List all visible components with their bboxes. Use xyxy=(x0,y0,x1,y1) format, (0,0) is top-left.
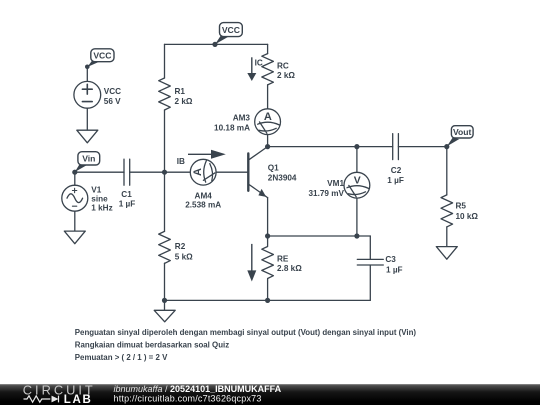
wire R5 to ground xyxy=(446,227,448,247)
current arrows xyxy=(188,57,256,281)
svg-text:sine: sine xyxy=(91,195,108,204)
svg-text:RE: RE xyxy=(277,255,289,264)
wire Vin row left xyxy=(75,171,124,173)
svg-text:http://circuitlab.com/c7t3626q: http://circuitlab.com/c7t3626qcpx73 xyxy=(114,393,262,403)
ammeter AM3 xyxy=(255,109,281,135)
wire AM4 to base xyxy=(216,171,248,173)
footer bar xyxy=(0,384,540,405)
wire C3 branch top xyxy=(369,236,371,259)
svg-text:C2: C2 xyxy=(391,166,402,175)
ground (VCC) xyxy=(77,130,98,143)
svg-text:1 µF: 1 µF xyxy=(386,265,403,274)
ground (bottom bus) xyxy=(154,300,175,321)
wire RC to AM3 xyxy=(267,85,269,109)
svg-text:AM3: AM3 xyxy=(233,114,251,123)
current arrow IB xyxy=(188,153,212,155)
node ground bus left xyxy=(162,298,167,303)
svg-text:Q1: Q1 xyxy=(268,164,279,173)
svg-text:Vin: Vin xyxy=(82,154,95,164)
node VCC flag anchor xyxy=(85,65,90,70)
node Vout xyxy=(444,144,449,149)
net flag Vin xyxy=(75,152,100,172)
svg-text:RC: RC xyxy=(277,61,289,70)
node VM1 bottom xyxy=(354,233,359,238)
node emitter xyxy=(265,233,270,238)
svg-text:Penguatan sinyal diperoleh den: Penguatan sinyal diperoleh dengan membag… xyxy=(75,328,417,337)
svg-text:VCC: VCC xyxy=(104,87,121,96)
svg-text:2 kΩ: 2 kΩ xyxy=(277,71,295,80)
svg-text:2 kΩ: 2 kΩ xyxy=(175,97,193,106)
resistor R5 xyxy=(441,195,453,227)
node Vin xyxy=(72,170,77,175)
capacitor C2 xyxy=(393,134,399,160)
svg-text:1 kHz: 1 kHz xyxy=(91,203,112,212)
svg-text:1 µF: 1 µF xyxy=(387,176,404,185)
svg-text:C1: C1 xyxy=(121,190,132,199)
wire VM1 top xyxy=(356,147,358,173)
wire base row (node to AM4) xyxy=(165,171,191,173)
resistor RC xyxy=(262,54,274,85)
svg-text:LAB: LAB xyxy=(64,394,93,405)
capacitor C1 xyxy=(124,159,130,185)
voltmeter VM1 xyxy=(344,172,370,198)
svg-text:R2: R2 xyxy=(175,242,186,251)
svg-text:VM1: VM1 xyxy=(327,179,344,188)
ground (R5) xyxy=(436,247,457,260)
svg-text:IC: IC xyxy=(255,59,263,68)
wire VCC source to ground xyxy=(86,108,88,130)
wire VM1 bottom xyxy=(356,198,358,236)
svg-text:5 kΩ: 5 kΩ xyxy=(175,253,193,262)
logo resistor-diode symbol xyxy=(24,396,59,403)
net flag Vout xyxy=(447,126,473,147)
wire R1 to base node xyxy=(164,110,166,231)
svg-text:2N3904: 2N3904 xyxy=(268,174,297,183)
svg-text:10.18 mA: 10.18 mA xyxy=(214,124,250,133)
transistor Q1 xyxy=(247,154,249,191)
svg-text:V: V xyxy=(354,176,361,187)
svg-text:A: A xyxy=(192,168,204,176)
net flag VCC (top) xyxy=(215,23,242,45)
wire Vout to R5 xyxy=(446,147,448,195)
wire Vin node to V1 xyxy=(74,172,76,185)
svg-text:Pemuatan > ( 2 / 1 ) = 2 V: Pemuatan > ( 2 / 1 ) = 2 V xyxy=(75,353,168,362)
svg-text:1 µF: 1 µF xyxy=(119,199,136,208)
wire V1 to ground xyxy=(74,211,76,231)
wire bottom bus xyxy=(165,299,371,301)
ground (V1) xyxy=(64,231,85,244)
svg-text:10 kΩ: 10 kΩ xyxy=(456,212,479,221)
meter letters xyxy=(192,111,361,187)
wire top bus xyxy=(165,43,268,45)
svg-text:Rangkaian dimuat berdasarkan s: Rangkaian dimuat berdasarkan soal Quiz xyxy=(75,341,229,350)
wire C2 to Vout node xyxy=(398,146,446,148)
capacitor C3 xyxy=(357,259,383,265)
wire emitter row xyxy=(268,235,371,237)
svg-text:R5: R5 xyxy=(456,202,467,211)
svg-text:Vout: Vout xyxy=(453,127,472,137)
node RE bottom xyxy=(265,298,270,303)
wire C1 to base node xyxy=(130,171,165,173)
net flag VCC (left) xyxy=(87,49,114,67)
node VM1 top xyxy=(354,144,359,149)
node collector xyxy=(265,144,270,149)
net flags xyxy=(75,23,473,172)
svg-text:A: A xyxy=(264,111,272,123)
svg-text:2.8 kΩ: 2.8 kΩ xyxy=(277,264,302,273)
svg-text:56 V: 56 V xyxy=(104,97,121,106)
svg-text:IB: IB xyxy=(177,157,185,166)
wire C3 branch bottom xyxy=(369,265,371,300)
wire left branch top (VCC bus to R1) xyxy=(164,44,166,78)
resistor RE xyxy=(262,236,274,300)
voltage source VCC xyxy=(74,81,101,108)
svg-text:VCC: VCC xyxy=(93,50,111,60)
current arrow IE xyxy=(251,244,253,271)
svg-text:31.79 mV: 31.79 mV xyxy=(308,189,344,198)
node base xyxy=(162,170,167,175)
svg-text:R1: R1 xyxy=(175,87,186,96)
svg-text:AM4: AM4 xyxy=(195,191,213,200)
svg-text:V1: V1 xyxy=(91,185,101,194)
svg-text:VCC: VCC xyxy=(222,25,240,35)
wire RC branch stub xyxy=(267,44,269,53)
resistor R2 xyxy=(159,231,171,263)
wire VCC source top xyxy=(86,67,88,82)
ammeter AM4 xyxy=(190,159,216,185)
svg-text:C3: C3 xyxy=(385,255,396,264)
wire AM3 to collector node xyxy=(267,135,269,147)
wire R2 to bottom bus xyxy=(164,263,166,300)
current arrow IC xyxy=(251,57,253,73)
description text xyxy=(75,328,417,362)
wire collector row to C2 xyxy=(268,146,393,148)
resistor R1 xyxy=(159,78,171,110)
wire emitter stub xyxy=(267,198,269,236)
svg-text:2.538 mA: 2.538 mA xyxy=(185,200,221,209)
node top bus VCC anchor xyxy=(212,42,217,47)
voltage source V1 sine xyxy=(62,185,88,211)
